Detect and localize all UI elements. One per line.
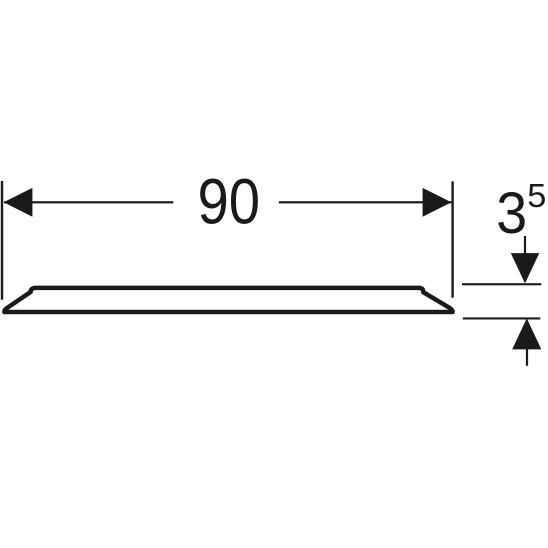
svg-text:5: 5 [527,178,546,215]
plate profile outline [4,288,452,312]
right extension line [451,181,453,297]
svg-text:3: 3 [496,181,527,246]
svg-text:90: 90 [198,166,261,238]
up arrowhead [512,318,541,349]
dimension line 90 left segment [4,201,173,203]
left arrowhead [4,188,33,217]
vertical leader line above down arrow [524,236,526,255]
lower extension line of thickness dimension [463,317,541,319]
dimension line 90 right segment [279,201,452,203]
left extension line [1,181,3,300]
upper extension line of thickness dimension [462,283,541,285]
down arrowhead [511,253,540,283]
right arrowhead [423,188,452,217]
vertical tail line below up arrow [526,349,528,366]
